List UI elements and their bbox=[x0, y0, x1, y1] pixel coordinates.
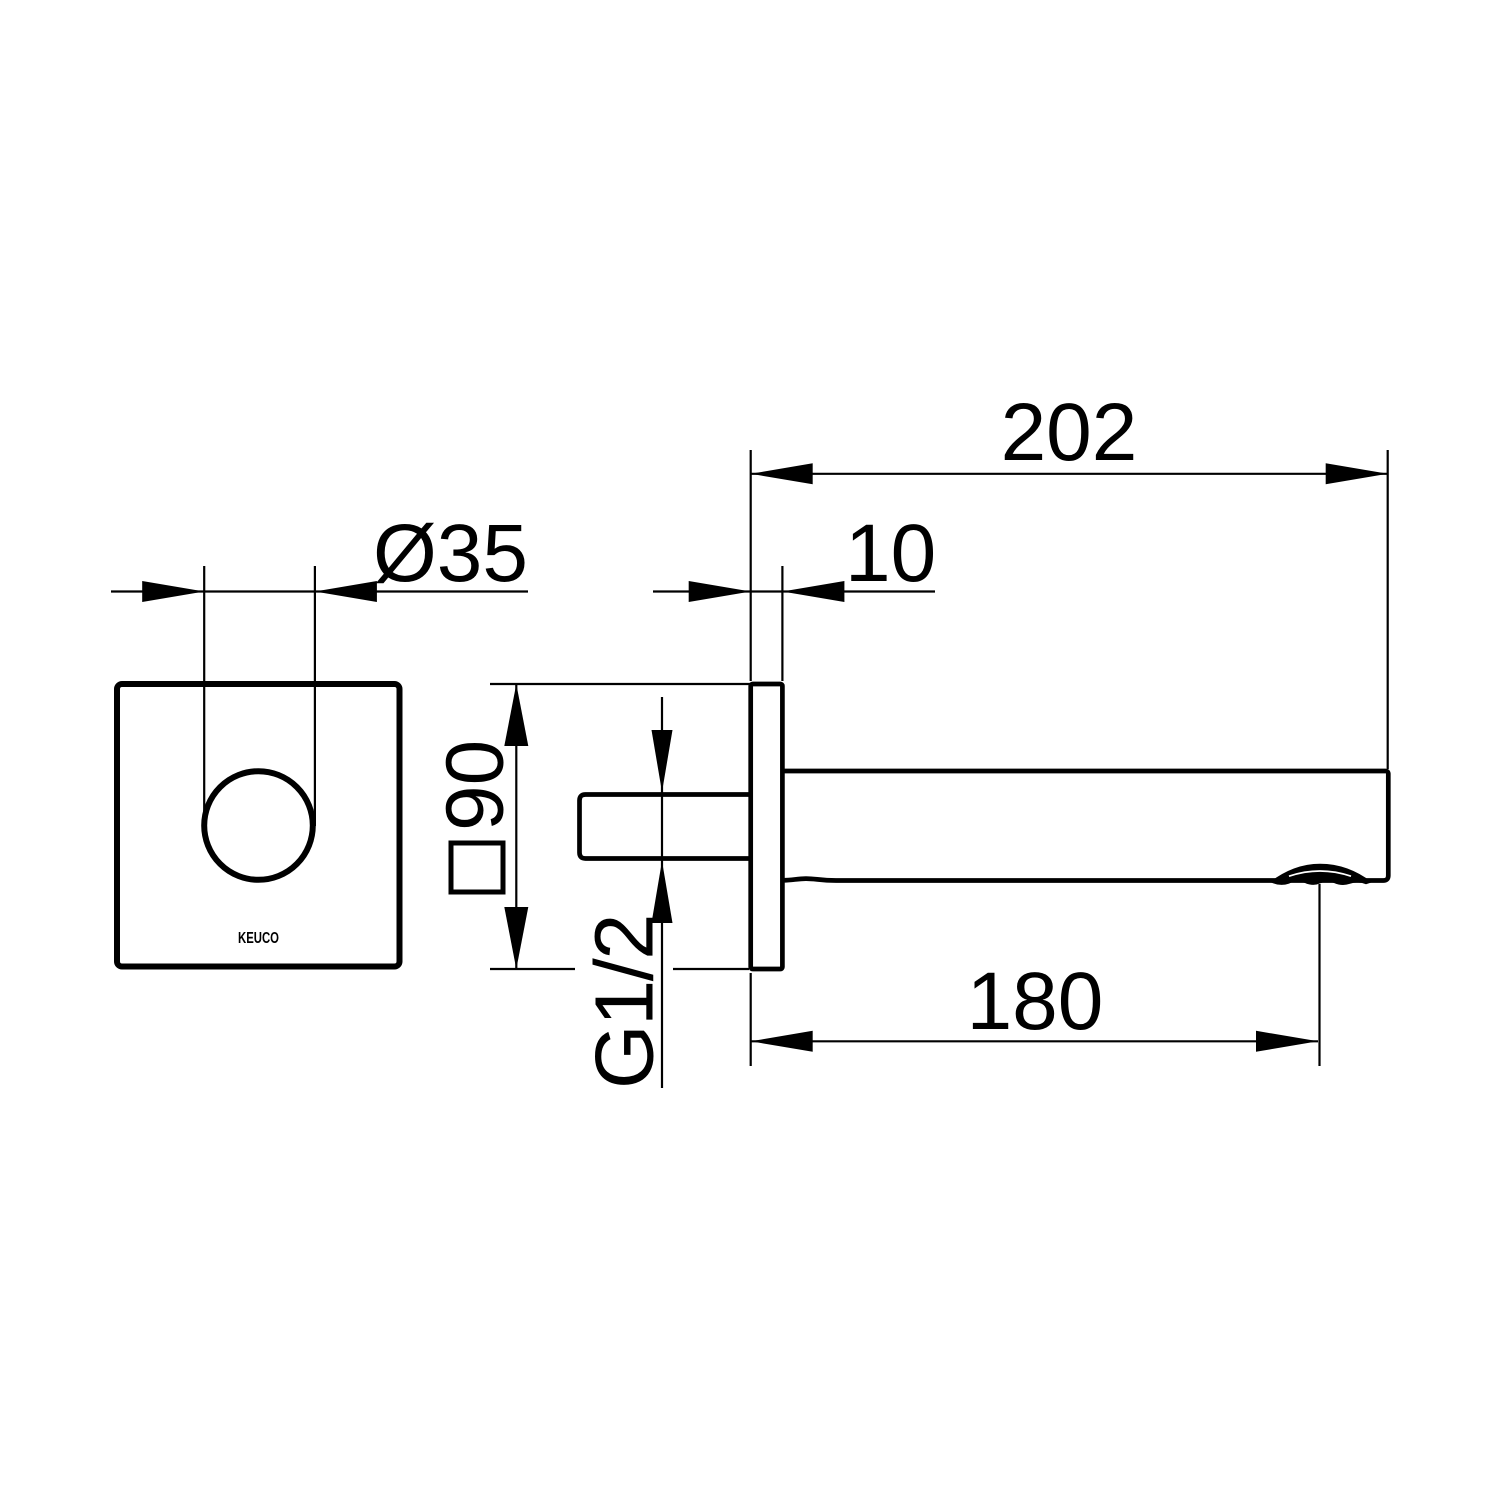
dimension 90 arrow top bbox=[504, 684, 528, 746]
dimension Ø35 extension line right bbox=[314, 566, 316, 826]
svg-text:10: 10 bbox=[845, 508, 936, 599]
dimension 10 line bbox=[653, 590, 935, 592]
G1/2 dimension line bbox=[661, 697, 663, 1088]
aerator notch bbox=[1270, 864, 1372, 885]
handle circle bbox=[204, 771, 313, 880]
dimension 90 extension line bottom (split around G1/2 text) bbox=[490, 968, 575, 970]
G1/2 arrow up bbox=[652, 861, 673, 923]
dimension 180 extension line right bbox=[1318, 884, 1320, 1066]
G1/2 arrow down bbox=[652, 730, 673, 792]
spout body outline bbox=[783, 771, 1388, 881]
dimension 202 arrow left bbox=[751, 463, 813, 484]
svg-text:Ø35: Ø35 bbox=[373, 508, 528, 599]
dimension 90 arrow bottom bbox=[504, 907, 528, 969]
dimension Ø35 line bbox=[111, 590, 528, 592]
svg-text:90: 90 bbox=[430, 740, 521, 831]
dimension 180 arrow left bbox=[751, 1031, 813, 1052]
svg-text:202: 202 bbox=[1001, 387, 1138, 478]
dimension Ø35 arrow left bbox=[142, 581, 204, 602]
dimension 90 extension line top bbox=[490, 683, 752, 685]
svg-text:KEUCO: KEUCO bbox=[238, 930, 279, 947]
G1/2 threaded pipe bbox=[580, 795, 754, 859]
svg-text:180: 180 bbox=[967, 956, 1104, 1047]
dimension 202 extension line left bbox=[750, 450, 752, 681]
wall plate (side view) bbox=[751, 684, 783, 969]
dimension Ø35 extension line left bbox=[203, 566, 205, 826]
dimension 202 extension line right bbox=[1387, 450, 1389, 769]
dimension 202 line bbox=[751, 473, 1388, 475]
dimension Ø35 arrow right bbox=[315, 581, 377, 602]
dimension 90 line bbox=[515, 684, 517, 969]
dimension 180 extension line left bbox=[750, 973, 752, 1066]
front escutcheon plate (square) bbox=[117, 684, 400, 967]
dimension 10 extension line bbox=[781, 566, 783, 681]
dimension 202 arrow right bbox=[1326, 463, 1388, 484]
square section symbol bbox=[451, 843, 503, 892]
dimension 10 arrow left bbox=[689, 581, 751, 602]
dimension 180 arrow right bbox=[1256, 1031, 1318, 1052]
svg-text:G1/2: G1/2 bbox=[578, 915, 671, 1089]
dimension 10 arrow right bbox=[782, 581, 844, 602]
dimension 180 line bbox=[751, 1040, 1318, 1042]
